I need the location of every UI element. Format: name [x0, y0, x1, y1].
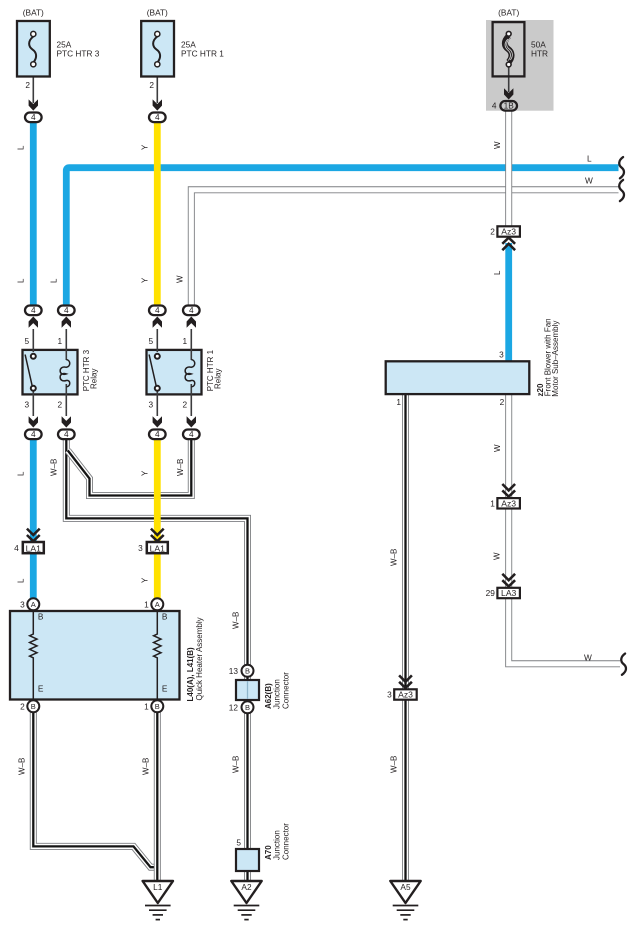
svg-text:3: 3	[24, 400, 29, 410]
svg-text:L40(A), L41(B): L40(A), L41(B)	[186, 647, 195, 702]
svg-text:29: 29	[486, 588, 496, 598]
svg-text:L: L	[587, 154, 592, 164]
svg-text:L: L	[17, 278, 26, 283]
svg-text:W–B: W–B	[390, 756, 399, 773]
wire L blue from relay 1 through LA1 to quick heater	[30, 440, 37, 600]
svg-text:Junction: Junction	[273, 830, 282, 860]
wire fuse PTC HTR 1 pin 2 to connector	[156, 66, 158, 103]
svg-text:W: W	[585, 176, 593, 186]
svg-text:L: L	[17, 578, 26, 583]
svg-text:2: 2	[25, 80, 30, 90]
connector oval 4 below relay pin at x=66.3	[62, 416, 71, 427]
ground L1	[143, 881, 173, 903]
wire W-B branch from relay 2 coil joining relay 1 W-B	[68, 440, 192, 496]
svg-text:B: B	[31, 702, 36, 711]
wire W-B from heater pin 1 to ground L1	[154, 712, 161, 882]
svg-text:(BAT): (BAT)	[498, 7, 519, 17]
svg-text:W: W	[176, 275, 185, 283]
svg-text:1: 1	[490, 498, 495, 508]
connector oval 4 above relay pin at x=191.3	[187, 317, 196, 328]
svg-text:3: 3	[387, 690, 392, 700]
wire W-B junction chain through A62(B) and A70 to ground A2	[244, 668, 251, 852]
svg-text:W–B: W–B	[232, 756, 241, 773]
svg-text:L1: L1	[153, 882, 163, 892]
continuation squiggle W	[619, 180, 624, 201]
svg-text:W–B: W–B	[50, 459, 59, 476]
svg-text:4: 4	[189, 305, 194, 315]
svg-text:Az3: Az3	[501, 498, 516, 508]
svg-text:Relay: Relay	[90, 369, 99, 389]
svg-text:W: W	[493, 552, 502, 560]
junction connector A70	[236, 849, 259, 871]
svg-text:B: B	[245, 703, 250, 712]
svg-text:4: 4	[155, 429, 160, 439]
svg-text:4: 4	[64, 305, 69, 315]
heater pin 1 A	[151, 598, 163, 610]
continuation squiggle L	[619, 157, 624, 178]
svg-text:W–B: W–B	[142, 758, 151, 775]
svg-text:W–B: W–B	[232, 612, 241, 629]
svg-text:4: 4	[155, 305, 160, 315]
svg-text:Y: Y	[141, 470, 150, 476]
fuse 25A PTC HTR 1	[141, 21, 174, 77]
svg-text:A5: A5	[400, 882, 411, 892]
svg-text:2: 2	[57, 400, 62, 410]
svg-text:B: B	[155, 702, 160, 711]
svg-text:HTR: HTR	[531, 49, 548, 59]
connector 4 LA1	[27, 529, 40, 535]
fuse 50A HTR	[493, 22, 525, 76]
svg-text:A: A	[155, 600, 160, 609]
svg-text:Motor Sub–Assembly: Motor Sub–Assembly	[551, 321, 560, 397]
svg-text:5: 5	[148, 336, 153, 346]
connector 1 Az3	[502, 484, 515, 490]
svg-text:E: E	[162, 684, 168, 694]
svg-text:LA1: LA1	[26, 543, 42, 553]
connector oval 4 below relay pin at x=191.3	[187, 416, 196, 427]
svg-text:(BAT): (BAT)	[147, 7, 168, 17]
wire W-B from relay 1 coil to junction connector A62	[66, 440, 247, 668]
svg-text:3: 3	[138, 543, 143, 553]
svg-text:(BAT): (BAT)	[23, 7, 44, 17]
svg-text:B: B	[38, 612, 44, 622]
relay PTC HTR 1 (U: relay 2)	[147, 350, 202, 395]
wire Y yellow from relay 2 through LA1 to quick heater	[154, 440, 161, 600]
svg-text:W–B: W–B	[390, 549, 399, 566]
svg-text:1: 1	[396, 397, 401, 407]
connector oval 4 above relay pin at x=66.3	[62, 317, 71, 328]
blower motor z20 box	[386, 361, 530, 394]
heater pin 1 B bottom	[151, 700, 163, 712]
svg-text:A2: A2	[241, 882, 252, 892]
connector 2 Az3	[497, 226, 520, 236]
svg-text:2: 2	[182, 400, 187, 410]
svg-text:Connector: Connector	[281, 672, 290, 709]
connector oval 4 below relay pin at x=157.3	[153, 416, 162, 427]
svg-text:1B: 1B	[504, 101, 515, 111]
wire Y yellow from fuse PTC HTR 1 down to relay 2	[154, 122, 161, 305]
fuse 25A PTC HTR 3	[17, 21, 50, 77]
svg-text:L: L	[17, 145, 26, 150]
connector 3 LA1	[151, 529, 164, 535]
svg-text:4: 4	[64, 429, 69, 439]
connector oval 4 above relay pin at x=33.3	[29, 317, 38, 328]
svg-text:12: 12	[229, 702, 239, 712]
wire W horizontal from page edge down to relay 2 coil	[191, 190, 618, 305]
svg-text:3: 3	[148, 400, 153, 410]
wire fuse PTC HTR 3 pin 2 to connector	[32, 66, 34, 103]
svg-text:E: E	[38, 684, 44, 694]
svg-text:L: L	[50, 278, 59, 283]
connector oval 4 above relay pin at x=157.3	[153, 317, 162, 328]
wire W-B from blower pin 1 through Az3 to ground A5	[402, 395, 409, 882]
svg-text:4: 4	[31, 429, 36, 439]
svg-text:13: 13	[229, 666, 239, 676]
ground A2	[231, 881, 261, 903]
junction connector A62(B)	[236, 680, 259, 700]
svg-text:W: W	[493, 141, 502, 149]
svg-text:B: B	[162, 612, 168, 622]
svg-text:Quick Heater Assembly: Quick Heater Assembly	[195, 617, 204, 700]
svg-text:A62(B): A62(B)	[264, 683, 273, 709]
svg-text:4: 4	[31, 305, 36, 315]
svg-text:3: 3	[20, 599, 25, 609]
svg-text:1: 1	[182, 336, 187, 346]
continuation squiggle W bottom	[621, 654, 626, 675]
svg-text:4: 4	[14, 543, 19, 553]
svg-text:1: 1	[57, 336, 62, 346]
heater pin 3 A	[27, 598, 39, 610]
svg-text:4: 4	[31, 112, 36, 122]
svg-text:4: 4	[492, 101, 497, 111]
svg-text:4: 4	[155, 112, 160, 122]
connector oval 4 below relay pin at x=33.3	[29, 416, 38, 427]
svg-text:PTC HTR 1: PTC HTR 1	[181, 49, 224, 59]
svg-text:2: 2	[490, 227, 495, 237]
svg-text:L: L	[493, 270, 502, 275]
svg-text:W: W	[584, 652, 592, 662]
svg-text:Az3: Az3	[501, 227, 516, 237]
ground A5	[390, 881, 420, 903]
wire W from fuse HTR down to connector Az3	[505, 110, 512, 226]
wire W from blower pin 2 through Az3 and LA3 to page edge	[509, 395, 620, 664]
svg-text:Az3: Az3	[398, 690, 413, 700]
connector 3 Az3	[399, 675, 412, 681]
svg-text:Y: Y	[141, 144, 150, 150]
wire W-B from heater pin 2 to ground L1	[33, 712, 157, 867]
svg-text:LA1: LA1	[150, 543, 166, 553]
svg-text:Junction: Junction	[273, 679, 282, 709]
svg-text:Relay: Relay	[214, 369, 223, 389]
wire fuse HTR pin to connector	[508, 66, 510, 92]
svg-text:W: W	[493, 444, 502, 452]
svg-text:Y: Y	[141, 277, 150, 283]
heater pin 2 B bottom	[27, 700, 39, 712]
svg-text:5: 5	[24, 336, 29, 346]
svg-text:Y: Y	[141, 577, 150, 583]
connector 29 LA3	[502, 574, 515, 580]
svg-text:PTC HTR 3: PTC HTR 3	[57, 49, 100, 59]
quick heater assembly L40(A) L41(B)	[10, 611, 180, 700]
svg-text:W–B: W–B	[18, 758, 27, 775]
svg-text:5: 5	[236, 838, 241, 848]
svg-text:A70: A70	[264, 845, 273, 860]
svg-text:2: 2	[149, 80, 154, 90]
svg-text:1: 1	[144, 599, 149, 609]
resistor left (L40)	[30, 610, 37, 700]
svg-text:Connector: Connector	[281, 823, 290, 860]
wire L blue from fuse PTC HTR 3 down to relay 1	[30, 122, 37, 305]
svg-text:LA3: LA3	[501, 588, 517, 598]
svg-text:2: 2	[20, 701, 25, 711]
resistor right (L41)	[154, 610, 161, 700]
svg-text:A: A	[31, 600, 36, 609]
svg-text:4: 4	[189, 429, 194, 439]
svg-text:W–B: W–B	[176, 459, 185, 476]
gray highlight block behind 50A HTR fuse	[486, 20, 554, 111]
relay PTC HTR 3 (U: relay 1)	[23, 350, 78, 395]
svg-text:B: B	[245, 667, 250, 676]
wire L blue horizontal from node to page edge, and down to relay coil	[66, 168, 618, 305]
svg-text:3: 3	[499, 349, 504, 359]
svg-text:2: 2	[500, 397, 505, 407]
wire L blue from Az3 to blower pin 3	[505, 243, 512, 362]
svg-text:1: 1	[144, 701, 149, 711]
svg-text:L: L	[17, 471, 26, 476]
